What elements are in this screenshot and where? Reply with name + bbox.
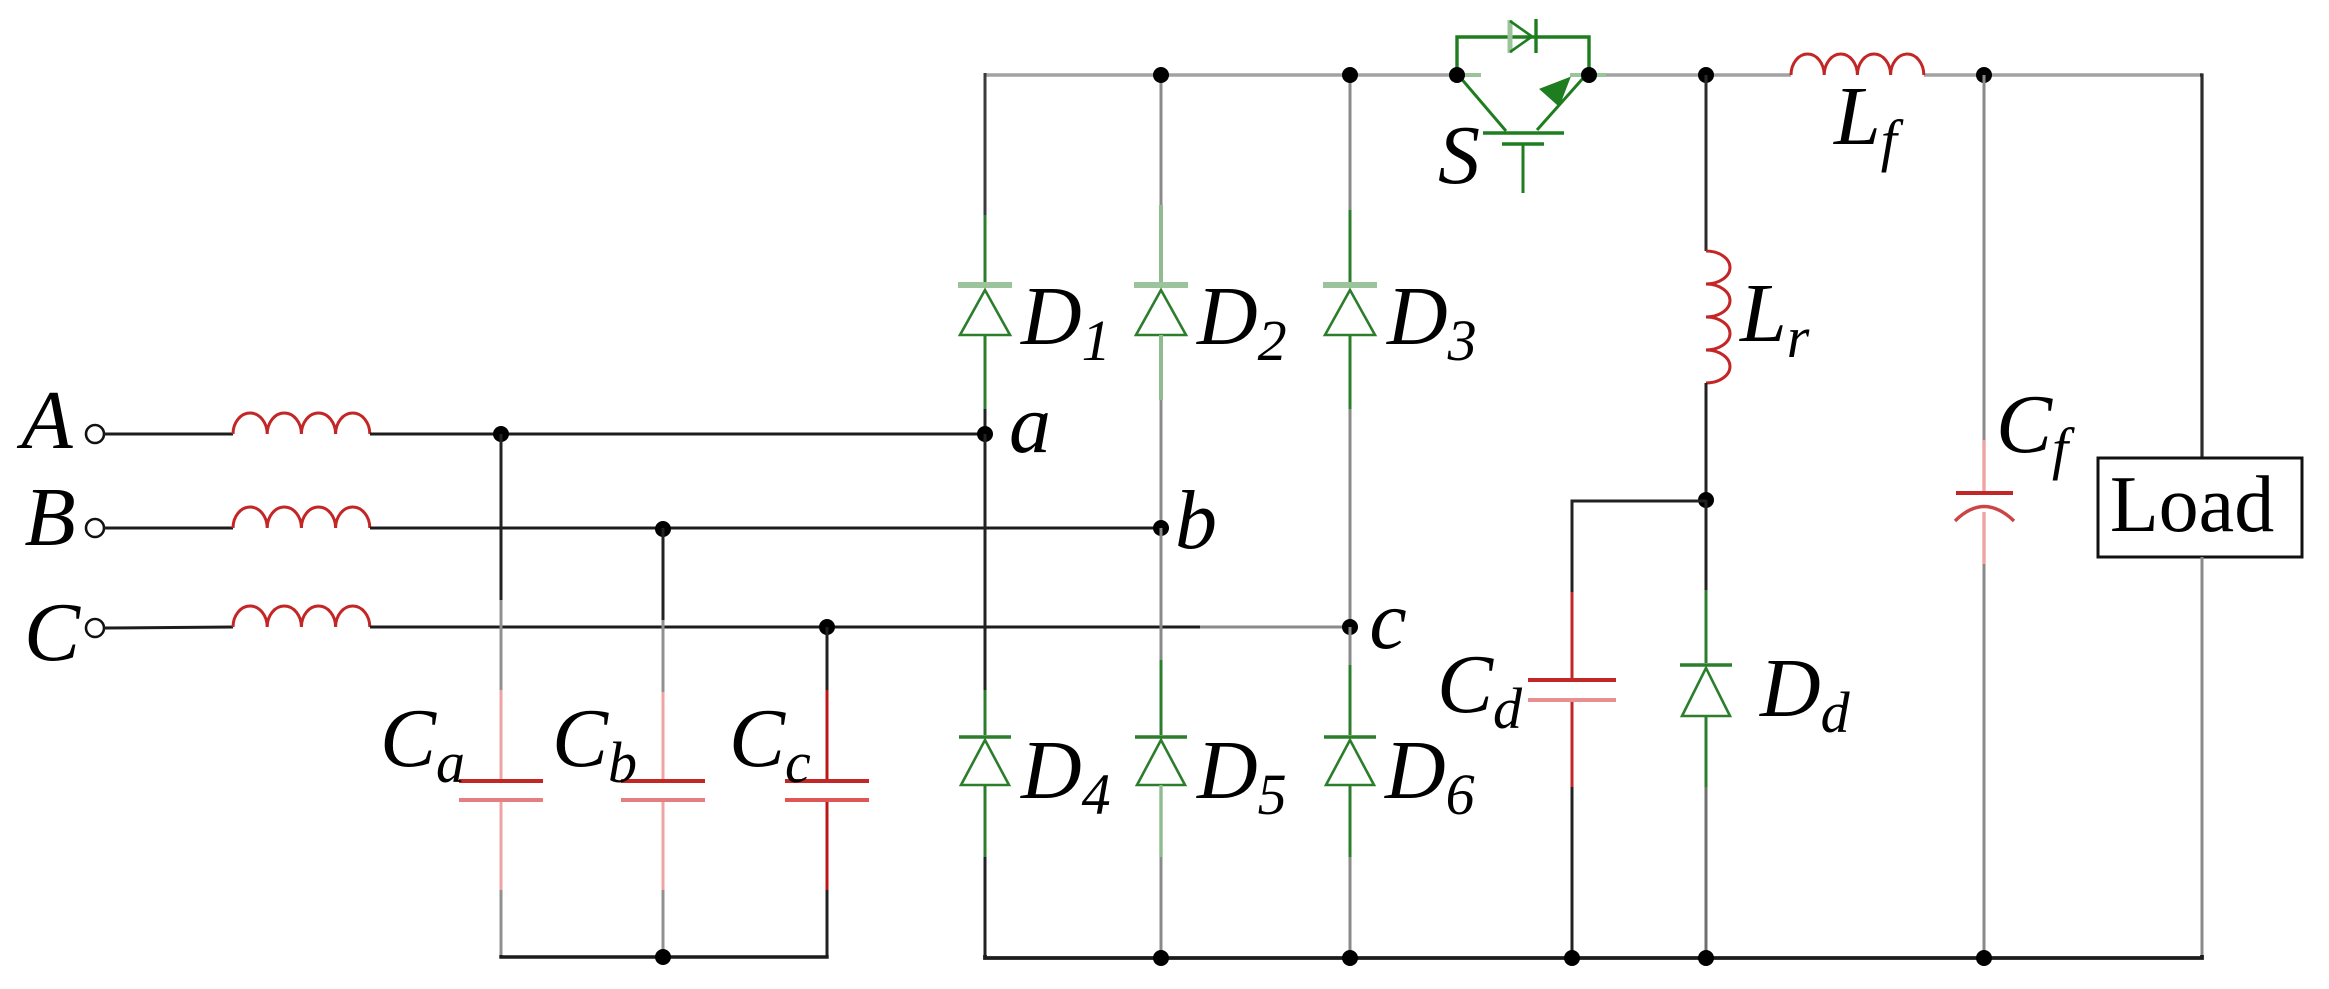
wire rail to Lr bbox=[1705, 75, 1708, 251]
svg-text:C: C bbox=[24, 586, 81, 679]
capacitor Cd upper lead bbox=[1571, 592, 1574, 678]
wire Lr to junction bbox=[1705, 383, 1708, 500]
diode Dd bbox=[1680, 665, 1732, 716]
wire C gray tail to node c bbox=[1200, 626, 1350, 629]
svg-text:a: a bbox=[1009, 378, 1051, 471]
rail junction dots bbox=[1153, 67, 1169, 83]
diode Dd lower lead bbox=[1705, 716, 1708, 787]
switch S antiparallel diode branch bbox=[1457, 19, 1589, 75]
inductor Lf bbox=[1791, 54, 1924, 75]
bridge column 1 lead below D1 bbox=[984, 335, 987, 409]
Cf branch junction dot bbox=[1976, 67, 1992, 83]
wire Cc lower lead bbox=[826, 802, 829, 890]
terminal B bbox=[86, 519, 104, 537]
inductor Lb bbox=[233, 507, 370, 528]
wire Cb upper lead bbox=[662, 528, 665, 620]
wire C terminal to inductor bbox=[104, 627, 233, 628]
bridge column 2 upper lead bbox=[1160, 73, 1163, 205]
svg-text:b: b bbox=[1175, 474, 1217, 567]
wire Cc upper lead bbox=[826, 627, 829, 690]
main bottom bus bbox=[985, 955, 2202, 958]
junction on C line bbox=[819, 619, 835, 635]
bridge column 3 lower lead bbox=[1349, 785, 1352, 857]
terminal A bbox=[86, 425, 104, 443]
node b bbox=[1153, 520, 1169, 536]
wire Cb lower lead bbox=[662, 802, 665, 890]
top rail right of switch bbox=[1589, 73, 1791, 77]
capacitor Cf bbox=[1956, 491, 2013, 495]
capacitor Ca bbox=[459, 779, 543, 783]
wire Ca upper lead bbox=[500, 434, 503, 600]
diode D5 bbox=[1135, 737, 1187, 785]
input filter bottom bus bbox=[501, 955, 827, 957]
capacitor Cd bbox=[1528, 678, 1616, 682]
diode D4 bbox=[959, 737, 1011, 785]
bridge column 3 lead below node c bbox=[1349, 627, 1352, 665]
switch terminal dots bbox=[1449, 67, 1465, 83]
diode D1 bbox=[958, 285, 1012, 335]
junction on input bus bbox=[655, 949, 671, 965]
wire Ca lower lead bbox=[500, 802, 503, 890]
bridge column 2 lead below node b bbox=[1160, 528, 1163, 660]
transistor S bbox=[1457, 75, 1606, 193]
right edge wire to load bbox=[2200, 75, 2202, 457]
capacitor Cf upper lead bbox=[1983, 75, 1986, 440]
svg-text:c: c bbox=[1369, 574, 1406, 667]
wire A inductor to node a bbox=[370, 433, 985, 436]
bridge column 3 upper lead bbox=[1349, 73, 1352, 210]
capacitor Cc bbox=[785, 779, 869, 783]
bridge column 2 lower lead bbox=[1159, 785, 1162, 857]
wire junction to Cd bbox=[1572, 501, 1706, 592]
diode D2 bbox=[1134, 285, 1188, 335]
wire B terminal to inductor bbox=[104, 527, 233, 530]
svg-text:A: A bbox=[16, 374, 73, 467]
bridge column 2 lead below D2 bbox=[1159, 335, 1163, 400]
inductor Lc bbox=[233, 606, 370, 627]
bridge column 3 lead below D3 bbox=[1349, 335, 1352, 409]
bridge column 1 lower lead bbox=[984, 785, 987, 857]
bridge column 1 upper lead bbox=[984, 73, 987, 215]
junction on A line bbox=[493, 426, 509, 442]
Lr branch junction dot bbox=[1698, 67, 1714, 83]
diode Dd branch upper lead bbox=[1705, 500, 1708, 590]
capacitor Cb bbox=[621, 779, 705, 783]
inductor Lr bbox=[1706, 251, 1730, 383]
node c bbox=[1342, 619, 1358, 635]
diode D3 bbox=[1323, 285, 1377, 335]
svg-text:S: S bbox=[1438, 109, 1480, 202]
node a bbox=[977, 426, 993, 442]
bridge column 1 lead below node a bbox=[984, 434, 987, 690]
diode D6 bbox=[1324, 737, 1376, 785]
wire A terminal to inductor bbox=[104, 433, 233, 436]
inductor La bbox=[233, 413, 370, 434]
junction on B line bbox=[655, 521, 671, 537]
top rail left of switch bbox=[985, 73, 1457, 77]
junction node below Lr bbox=[1698, 492, 1714, 508]
svg-text:B: B bbox=[24, 471, 75, 564]
bus junction dots bbox=[1153, 950, 1169, 966]
wire B inductor to node b bbox=[370, 527, 1161, 530]
svg-text:Load: Load bbox=[2110, 461, 2274, 549]
top rail after Lf bbox=[1924, 73, 2202, 77]
terminal C bbox=[86, 619, 104, 637]
capacitor Cf lower lead bbox=[1982, 512, 1985, 564]
load box bbox=[2098, 458, 2302, 557]
wire C inductor to node c bbox=[370, 626, 1200, 629]
capacitor Cd lower lead bbox=[1571, 702, 1574, 787]
wire load to bottom bus bbox=[2201, 557, 2204, 957]
